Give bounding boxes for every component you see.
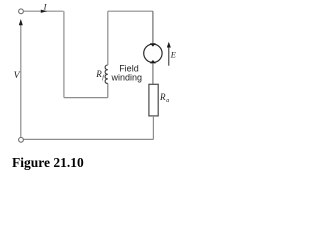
field winding coil Rf — [105, 65, 108, 84]
wire from Ra down to bottom rail — [152, 116, 154, 139]
svg-text:winding: winding — [111, 72, 143, 82]
resistor Ra box — [149, 84, 158, 116]
svg-text:R: R — [95, 69, 102, 79]
EMF arrow E — [168, 47, 170, 66]
svg-text:I: I — [43, 1, 48, 11]
wire from field winding up to top — [107, 11, 109, 65]
terminal top-left — [19, 9, 24, 14]
brush bottom — [150, 60, 156, 63]
wire left-loop left vertical — [63, 11, 65, 97]
wire top right horizontal — [108, 10, 153, 12]
svg-text:V: V — [14, 70, 21, 81]
terminal bottom-left — [19, 137, 24, 142]
svg-text:Figure 21.10: Figure 21.10 — [12, 155, 84, 170]
wire from loop bottom up to field winding — [107, 84, 109, 98]
wire from armature to Ra — [152, 63, 154, 84]
armature circle (generator) — [144, 44, 162, 62]
svg-text:E: E — [170, 51, 176, 60]
wire top from terminal to left loop corner — [24, 10, 64, 12]
svg-text:a: a — [166, 98, 169, 104]
current arrow I — [41, 10, 47, 13]
wire down to armature — [152, 11, 154, 43]
bottom rail wire — [23, 138, 153, 140]
svg-text:R: R — [159, 92, 166, 102]
wire left-loop bottom horizontal — [64, 97, 108, 99]
voltage arrow V head — [19, 19, 23, 25]
wire left rail — [20, 25, 22, 138]
brush top — [150, 43, 156, 46]
